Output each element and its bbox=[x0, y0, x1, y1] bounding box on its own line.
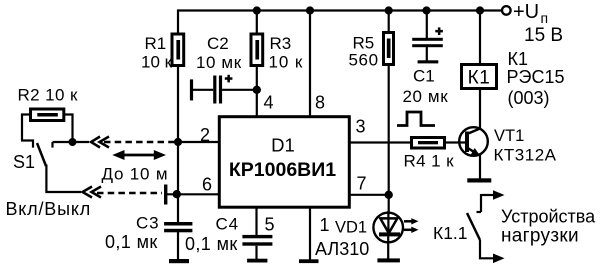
resistor R2 bbox=[31, 109, 64, 121]
svg-text:РЭС15: РЭС15 bbox=[507, 67, 565, 87]
svg-text:7: 7 bbox=[357, 174, 367, 194]
relay coil K1 bbox=[462, 65, 497, 89]
svg-text:3: 3 bbox=[356, 117, 366, 137]
svg-text:R3: R3 bbox=[270, 34, 292, 53]
wire K1 to VT1 collector bbox=[479, 89, 481, 129]
svg-text:К1: К1 bbox=[468, 68, 491, 89]
ground (VD1) bbox=[377, 258, 400, 262]
capacitor C4 bbox=[242, 235, 272, 246]
arrow marks (remote line to pin6) bbox=[83, 187, 102, 198]
wire R2 left lead bbox=[22, 115, 31, 141]
junction node 2 bbox=[174, 138, 182, 146]
length arrow (cable up to 10 m) bbox=[112, 150, 166, 160]
resistor R1 bbox=[172, 34, 184, 66]
junction S1/R2 (node A) bbox=[69, 138, 77, 146]
polarity + (C2) bbox=[225, 75, 233, 83]
wire R1 to node 2 bbox=[177, 66, 179, 143]
polarity + (C1) bbox=[435, 27, 443, 35]
svg-text:п: п bbox=[541, 10, 549, 26]
wire C2 left bbox=[192, 89, 213, 91]
svg-text:R4 1 к: R4 1 к bbox=[404, 152, 455, 171]
wire pin5 to C4 bbox=[255, 207, 257, 236]
svg-text:5: 5 bbox=[265, 215, 275, 235]
svg-text:R5: R5 bbox=[353, 34, 375, 53]
wire C1 stub bbox=[426, 47, 428, 61]
svg-text:R1: R1 bbox=[145, 34, 167, 53]
junction node 7 (VD1) bbox=[385, 191, 393, 199]
resistor R4 bbox=[412, 138, 445, 149]
label К1 РЭС15 (003) bbox=[507, 49, 565, 108]
svg-text:10 мк: 10 мк bbox=[196, 53, 242, 72]
junction rail/R5 bbox=[385, 6, 393, 14]
svg-text:C2: C2 bbox=[207, 34, 229, 53]
svg-text:0,1 мк: 0,1 мк bbox=[105, 232, 158, 252]
wire rail to relay coil K1 bbox=[479, 11, 481, 65]
dashed wire to terminal bbox=[97, 192, 162, 194]
wire pin3 to R4 bbox=[349, 141, 410, 143]
wire C3 to ground bbox=[177, 232, 179, 260]
wire R2 right lead bbox=[64, 115, 73, 143]
terminal bar (C2 left lead) bbox=[190, 79, 193, 100]
resistor R5 bbox=[384, 33, 394, 65]
svg-text:10 к: 10 к bbox=[269, 53, 304, 72]
svg-text:До 10 м: До 10 м bbox=[102, 165, 169, 184]
dashed wire to node 2 bbox=[104, 141, 174, 143]
wire pin7 to node7 bbox=[349, 194, 389, 196]
capacitor C2 (electrolytic) bbox=[213, 76, 222, 104]
LED VD1 bbox=[373, 211, 403, 259]
wire node A to arrows bbox=[53, 141, 90, 143]
label R1 10 к bbox=[141, 34, 173, 72]
svg-text:C1: C1 bbox=[413, 67, 435, 86]
arrow marks (remote line to pin2) bbox=[91, 137, 109, 148]
wire pin1 to ground bbox=[309, 207, 311, 260]
terminal bar (pin6 connector) bbox=[164, 185, 167, 205]
capacitor C3 bbox=[164, 222, 192, 232]
wire R3 to pin 4 bbox=[256, 66, 258, 118]
transistor VT1 bbox=[459, 127, 488, 156]
label VT1 КТ312А bbox=[494, 127, 557, 165]
svg-text:C3: C3 bbox=[136, 214, 159, 233]
IC D1 КР1006ВИ1 bbox=[219, 117, 349, 208]
svg-text:15 В: 15 В bbox=[524, 25, 563, 46]
ground (C3) bbox=[169, 259, 189, 263]
svg-text:R2 10 к: R2 10 к bbox=[18, 86, 78, 105]
wire pin6 to node6 bbox=[167, 193, 219, 195]
ground (VT1 emitter) bbox=[467, 178, 491, 182]
wire: +U supply rail bbox=[178, 9, 502, 11]
svg-text:VD1: VD1 bbox=[335, 219, 367, 237]
svg-text:0,1 мк: 0,1 мк bbox=[185, 234, 238, 254]
svg-text:АЛ310: АЛ310 bbox=[315, 239, 369, 259]
svg-text:КТ312А: КТ312А bbox=[494, 146, 557, 165]
wire R5 to pin7 node (crosses pin3 wire) bbox=[388, 64, 390, 195]
svg-text:8: 8 bbox=[315, 93, 325, 113]
wire emitter to ground bbox=[479, 155, 481, 179]
svg-text:Устройства: Устройства bbox=[501, 207, 596, 227]
svg-text:КР1006ВИ1: КР1006ВИ1 bbox=[229, 159, 336, 181]
wire C2 right to pin4 line bbox=[222, 89, 257, 91]
wire node6 to C3 bbox=[177, 194, 179, 222]
label R3 10 к bbox=[269, 34, 304, 72]
junction rail/R3 bbox=[253, 6, 261, 14]
wire node2 to node6 bbox=[177, 142, 179, 194]
svg-text:D1: D1 bbox=[271, 135, 295, 156]
switch S1 bbox=[21, 141, 53, 167]
junction rail/K1 bbox=[476, 6, 484, 14]
svg-text:(003): (003) bbox=[508, 88, 550, 108]
svg-text:4: 4 bbox=[264, 93, 274, 113]
svg-text:К1.1: К1.1 bbox=[433, 223, 468, 243]
svg-text:560: 560 bbox=[349, 51, 379, 70]
svg-text:C4: C4 bbox=[216, 215, 239, 234]
wire rail to pin 8 bbox=[309, 11, 311, 118]
wire rail to R3 bbox=[256, 11, 258, 35]
terminal +Uп (open circle) bbox=[502, 6, 511, 15]
junction rail/C1 bbox=[422, 6, 430, 14]
label Устройства нагрузки bbox=[501, 207, 596, 247]
junction node 6 bbox=[173, 190, 181, 198]
resistor R3 bbox=[251, 34, 263, 66]
wire rail to C1 bbox=[426, 11, 428, 39]
ground (pin 1) bbox=[299, 259, 319, 263]
svg-text:Вкл/Выкл: Вкл/Выкл bbox=[6, 199, 92, 219]
wire rail to R5 bbox=[388, 11, 390, 33]
wire pin2 to node2 bbox=[178, 141, 219, 143]
wire R4 to VT1 base bbox=[446, 141, 465, 143]
relay contact К1.1 bbox=[467, 190, 505, 263]
svg-text:S1: S1 bbox=[13, 152, 35, 172]
junction rail/pin8 bbox=[306, 6, 314, 14]
junction C2/pin4 bbox=[253, 86, 261, 94]
ground (C4) bbox=[247, 259, 267, 263]
svg-text:6: 6 bbox=[202, 175, 212, 195]
wire S1 pole down and right bbox=[46, 165, 81, 193]
svg-text:+U: +U bbox=[513, 1, 539, 23]
label R5 560 bbox=[349, 34, 379, 70]
wire C4 to ground bbox=[255, 246, 257, 259]
LED arrows (VD1) bbox=[404, 218, 419, 233]
ground (C1) bbox=[418, 60, 439, 63]
pulse symbol bbox=[397, 112, 435, 126]
capacitor C1 (electrolytic) bbox=[412, 38, 443, 47]
net label +Uп bbox=[513, 1, 548, 26]
wire rail to R1 bbox=[177, 9, 179, 34]
svg-text:VT1: VT1 bbox=[494, 127, 524, 145]
svg-text:20 мк: 20 мк bbox=[403, 87, 449, 106]
svg-text:нагрузки: нагрузки bbox=[501, 226, 579, 247]
svg-text:К1: К1 bbox=[508, 49, 529, 69]
svg-text:1: 1 bbox=[320, 215, 330, 235]
svg-text:10 к: 10 к bbox=[141, 53, 173, 72]
wire node7 to VD1 bbox=[388, 195, 390, 217]
